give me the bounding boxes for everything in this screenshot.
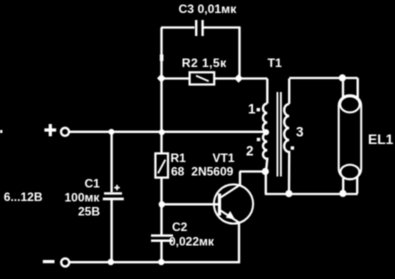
transistor VT1 [214, 184, 253, 223]
svg-text:C1: C1 [85, 177, 101, 191]
node rail/R1 junction [159, 129, 165, 135]
wire blob artifact on left vertical [160, 55, 164, 62]
node R2 right junction [234, 74, 243, 83]
svg-text:25В: 25В [78, 204, 100, 218]
svg-text:R2 1,5к: R2 1,5к [182, 56, 227, 70]
resistor R1 [155, 153, 168, 177]
terminal + circle [61, 128, 69, 136]
svg-text:EL1: EL1 [368, 132, 394, 147]
wire winding3 top to lamp top [289, 78, 358, 98]
transformer T1 winding 3 [288, 79, 290, 105]
node base/R1/C2 junction [159, 201, 165, 207]
svg-text:100мк: 100мк [65, 190, 101, 204]
svg-text:0,022мк: 0,022мк [169, 235, 215, 249]
wire lamp bottom pins [343, 177, 357, 194]
node collector/winding2 junction [262, 168, 269, 175]
svg-text:2: 2 [246, 143, 254, 158]
wire base from node to transistor [162, 203, 218, 205]
capacitor C3 [161, 26, 241, 28]
label + sign [44, 124, 56, 136]
node lamp bottom pin junction [339, 190, 346, 197]
wire collector up [240, 172, 266, 186]
label - sign [43, 260, 55, 263]
wire top rail from + terminal to transformer [69, 131, 267, 133]
svg-text:1: 1 [248, 102, 256, 117]
svg-text:3: 3 [296, 124, 304, 139]
node lamp top pin junction [339, 74, 346, 81]
lamp EL1 tube [339, 95, 362, 179]
svg-text:C2: C2 [172, 220, 188, 234]
transformer T1 winding 1 [266, 79, 268, 104]
wire emitter down [238, 223, 240, 264]
node phase dot winding 2 [257, 138, 260, 141]
wire vertical C3/R2/rail/R1 column [160, 28, 162, 263]
svg-text:6...12В: 6...12В [4, 190, 43, 204]
emitter arrowhead [226, 211, 235, 220]
node C1 bottom junction [108, 259, 114, 265]
svg-text:68: 68 [171, 164, 185, 178]
svg-text:VT1: VT1 [213, 151, 235, 165]
node C2 bottom junction [158, 259, 164, 265]
svg-text:2N5609: 2N5609 [191, 164, 233, 178]
wire noise speck at left edge [0, 130, 2, 133]
svg-text:R1: R1 [171, 151, 187, 165]
lamp EL1 bottom electrode [341, 165, 360, 180]
transformer T1 core [277, 92, 281, 177]
node winding3 bottom junction [285, 190, 292, 197]
node rail/winding junction [263, 129, 269, 135]
capacitor C1 [110, 132, 112, 192]
node phase dot winding 3 [291, 146, 294, 149]
wire winding2 bottom to lamp bottom [265, 172, 358, 195]
node phase dot winding 1 [257, 108, 260, 111]
node rail/C1 junction [108, 129, 114, 135]
wire bottom rail from - terminal to emitter [69, 261, 240, 263]
wire C3 right drop [238, 27, 240, 78]
resistor R2 [161, 77, 267, 79]
svg-text:Т1: Т1 [268, 56, 283, 70]
svg-text:C3 0,01мк: C3 0,01мк [179, 2, 238, 16]
lamp EL1 top electrode [340, 96, 359, 112]
label C1 polarity + [114, 185, 119, 190]
transformer T1 winding 2 [263, 133, 267, 172]
terminal - circle [61, 258, 69, 266]
capacitor C2 [151, 234, 173, 236]
node R2 left junction [157, 74, 166, 83]
